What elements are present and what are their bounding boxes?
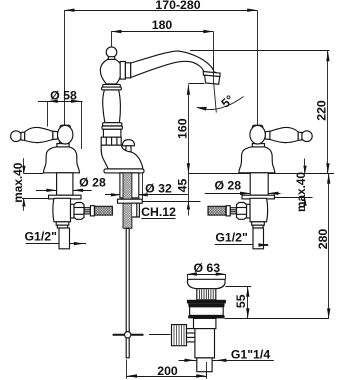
right valve: ball joint (250, 125, 265, 147)
svg-text:CH.12: CH.12 (141, 205, 176, 219)
drain: upper tailpipe (194, 318, 216, 371)
drain: rod clamp (knurled) (172, 325, 195, 346)
spout column: ribbed block (101, 137, 121, 145)
left valve: outlet hex nut (74, 203, 84, 220)
spout column: lower rings (102, 123, 123, 138)
mounting nut CH.12 (132, 203, 139, 217)
dimension 170-280 (handle spacing, top) (64, 0, 257, 125)
svg-text:G1/2": G1/2" (215, 231, 248, 245)
spout column: finial ball (106, 47, 117, 60)
left valve: ball joint (57, 125, 73, 147)
spout column: collar rings (120, 62, 131, 80)
drain: lower seal ring (black) (188, 315, 224, 318)
drain: body cup (190, 307, 224, 316)
spout column: neck rings (102, 84, 122, 90)
svg-text:Ø 63: Ø 63 (193, 261, 220, 275)
left valve: lower rings (56, 222, 69, 228)
G1/2 leader arrowhead right (overlay) (258, 243, 268, 246)
left valve: lever handle knob (11, 131, 25, 142)
drain: flange Ø63 (188, 279, 225, 288)
spout aerator (5 degree tilt) (203, 56, 220, 84)
dimension 5 degrees (spray angle) (197, 84, 244, 112)
right valve: lever handle body (265, 127, 298, 142)
dimension 55 (drain body height) (225, 287, 329, 319)
dimension 180 (spout reach) (111, 18, 213, 83)
label G1/2 left (inlet thread) (24, 229, 86, 243)
spout column: onion body (100, 59, 120, 84)
label G1/2 right (inlet thread) (215, 231, 268, 245)
right valve: bell base (239, 147, 275, 173)
svg-text:160: 160 (176, 118, 190, 139)
svg-text:280: 280 (316, 229, 330, 250)
spout column: shaft (103, 90, 121, 123)
left valve: braided hose (95, 206, 113, 215)
dimension 45 (body height below deck) (142, 173, 200, 215)
dimension 200 (rod to drain distance) (127, 360, 207, 379)
drain: centerline extension for 200 dim (206, 362, 208, 379)
right valve: outlet hex nut (237, 203, 247, 220)
dimension 220 (right, spout height above deck) (190, 51, 330, 174)
left valve: bell base (43, 147, 79, 173)
dimension Ø28 right (valve stem) (205, 178, 281, 195)
dimension Ø28 left (valve stem) (36, 176, 106, 193)
dimension max.40 right (deck thickness) (269, 159, 313, 213)
right valve: hose nipple (226, 206, 236, 216)
svg-text:Ø 58: Ø 58 (50, 88, 77, 102)
threaded rod (hatched) (123, 173, 132, 228)
pop-up lift knob (123, 140, 135, 152)
right valve: stem (250, 173, 268, 195)
right valve: lower rings (252, 222, 265, 228)
mounting washer Ø32 (118, 199, 143, 203)
dimension Ø63 (drain flange) (187, 261, 226, 279)
label G1 1/4 (drain thread) with diameter arrows (179, 348, 274, 363)
svg-text:Ø 28: Ø 28 (214, 178, 241, 192)
svg-text:45: 45 (175, 179, 189, 193)
pop-up rod crossbar (113, 332, 171, 338)
svg-text:55: 55 (234, 294, 248, 308)
left valve: hose nipple (84, 206, 94, 216)
left valve: G1/2 tailpiece (59, 228, 70, 249)
svg-text:G1"1/4: G1"1/4 (231, 348, 270, 362)
G1/2 leader arrowhead left (overlay) (74, 242, 84, 245)
spout column: bell base (101, 145, 144, 173)
left valve: body (53, 198, 74, 222)
svg-text:220: 220 (314, 100, 328, 121)
svg-text:Ø 28: Ø 28 (79, 176, 106, 190)
drain: upper seal rings (black) (187, 300, 226, 307)
svg-text:170-280: 170-280 (155, 0, 200, 12)
dimension max.40 left (deck thickness) (11, 158, 49, 211)
svg-text:Ø 32: Ø 32 (145, 181, 172, 195)
mounting shank outline (120, 173, 139, 198)
right valve: body (247, 198, 268, 222)
drain: plug cap (knurled) (197, 289, 216, 300)
dimension Ø58 (left handle base) (38, 88, 83, 149)
dimension 160 (outlet height) (176, 84, 334, 174)
svg-text:max.40: max.40 (294, 172, 308, 212)
dimension 280 (right, below deck) (316, 173, 331, 318)
right valve: G1/2 tailpiece (253, 228, 264, 249)
right valve: lever handle knob (298, 131, 312, 142)
pop-up rod (thin vertical) (126, 228, 129, 357)
svg-text:200: 200 (157, 364, 178, 378)
label CH.12 (wrench size) (141, 205, 176, 219)
spout tube (curved) (131, 51, 217, 78)
right valve: braided hose (208, 206, 226, 215)
dimension Ø32 (mounting hole) (105, 173, 188, 200)
left valve: washer (49, 195, 81, 199)
svg-text:G1/2": G1/2" (24, 229, 57, 243)
left valve: lever handle body (25, 127, 58, 142)
svg-text:max.40: max.40 (11, 162, 25, 202)
right valve: washer (242, 195, 274, 199)
left valve: stem (57, 173, 73, 195)
svg-text:180: 180 (152, 18, 173, 32)
